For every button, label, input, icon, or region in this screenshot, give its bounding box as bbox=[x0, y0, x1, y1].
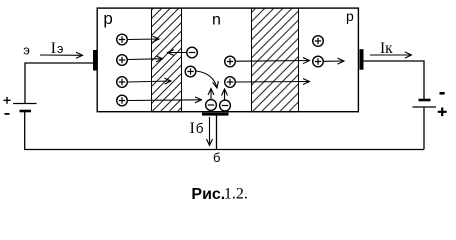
svg-text:p: p bbox=[103, 9, 112, 28]
svg-text:n: n bbox=[212, 12, 221, 29]
svg-text:э: э bbox=[23, 43, 30, 58]
svg-text:б: б bbox=[213, 150, 220, 165]
svg-text:Iб: Iб bbox=[190, 120, 204, 137]
svg-text:Рис.: Рис. bbox=[191, 186, 225, 203]
svg-text:Iэ: Iэ bbox=[51, 40, 64, 57]
svg-text:1.2.: 1.2. bbox=[224, 186, 248, 203]
svg-text:Iк: Iк bbox=[380, 40, 393, 57]
svg-text:p: p bbox=[346, 8, 354, 24]
